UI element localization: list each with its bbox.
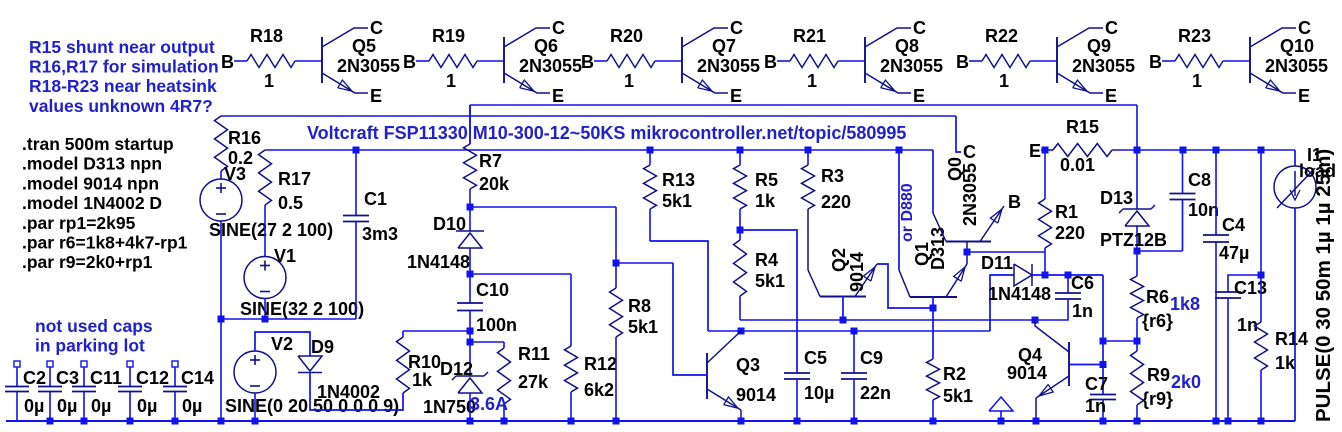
voltage source V1 xyxy=(240,246,364,319)
net flag B (Q8 base) xyxy=(764,52,777,72)
svg-text:C3: C3 xyxy=(56,368,79,388)
capacitor C1 xyxy=(343,150,398,319)
svg-text:2N3055: 2N3055 xyxy=(519,56,582,76)
svg-text:3m3: 3m3 xyxy=(362,224,398,244)
svg-text:Q10: Q10 xyxy=(1280,36,1314,56)
net flag C (Q9 collector) xyxy=(1105,18,1118,38)
svg-text:E: E xyxy=(1105,86,1117,106)
svg-text:Q8: Q8 xyxy=(895,36,919,56)
net flag E (Q9 emitter) xyxy=(1105,86,1117,106)
resistor R17 xyxy=(259,150,312,256)
svg-text:B: B xyxy=(221,52,234,72)
net flag E (Q10 emitter) xyxy=(1298,86,1310,106)
capacitor C5 10u xyxy=(784,348,834,421)
svg-text:R9: R9 xyxy=(1147,365,1170,385)
net flag E (shunt left) xyxy=(1029,141,1041,161)
junction Q4 base xyxy=(1100,361,1107,368)
capacitor C11 0u xyxy=(72,361,122,421)
svg-text:E: E xyxy=(730,86,742,106)
svg-text:1: 1 xyxy=(624,71,634,91)
junction C11 ground xyxy=(81,418,88,425)
transistor Q2 9014 xyxy=(808,248,933,320)
wire R21 to Q8 base xyxy=(838,60,865,62)
capacitor C7 1n xyxy=(1085,374,1116,421)
svg-text:C2: C2 xyxy=(23,368,46,388)
svg-text:C10: C10 xyxy=(476,280,509,300)
diode D13 PTZ12B zener xyxy=(1100,150,1167,251)
svg-text:1k: 1k xyxy=(1275,353,1296,373)
svg-text:220: 220 xyxy=(821,192,851,212)
svg-text:R18-R23 near heatsink: R18-R23 near heatsink xyxy=(29,76,217,96)
svg-text:C6: C6 xyxy=(1071,273,1094,293)
resistor R14 1k xyxy=(1255,150,1309,421)
wire R20 to Q7 base xyxy=(655,60,682,62)
svg-text:1: 1 xyxy=(999,71,1009,91)
junction R13 top xyxy=(647,147,654,154)
junction ground stem xyxy=(998,418,1005,425)
svg-text:C1: C1 xyxy=(364,189,387,209)
svg-text:1n: 1n xyxy=(1085,396,1106,416)
resistor R15 0.01 xyxy=(1053,117,1137,175)
svg-text:{r6}: {r6} xyxy=(1142,311,1173,331)
wire B to R20 xyxy=(594,60,607,62)
net flag B (Q0 emitter) xyxy=(1008,192,1021,212)
svg-text:R5: R5 xyxy=(755,170,778,190)
svg-text:.tran 500m startup: .tran 500m startup xyxy=(22,134,174,154)
svg-text:Q6: Q6 xyxy=(534,36,558,56)
svg-text:1k: 1k xyxy=(412,370,433,390)
wire output node xyxy=(1137,149,1295,151)
svg-text:B: B xyxy=(956,52,969,72)
wire D12 to ground xyxy=(469,393,471,421)
net flag B (Q5 base) xyxy=(221,52,234,72)
svg-text:27k: 27k xyxy=(518,372,549,392)
junction R11 ground xyxy=(501,418,508,425)
svg-text:.par r6=1k8+4k7-rp1: .par r6=1k8+4k7-rp1 xyxy=(22,233,188,253)
svg-text:D9: D9 xyxy=(311,337,334,357)
net flag B (Q6 base) xyxy=(403,52,416,72)
svg-text:2N3055: 2N3055 xyxy=(337,56,400,76)
wire rail supply (y=150) xyxy=(265,149,933,151)
svg-text:1: 1 xyxy=(1192,71,1202,91)
wire R22 to Q9 base xyxy=(1030,60,1057,62)
ground symbol xyxy=(989,397,1013,421)
value PULSE rotated xyxy=(1312,149,1335,422)
svg-text:10n: 10n xyxy=(1188,200,1219,220)
wire V2 top to D9 xyxy=(255,332,310,356)
junction Q1 base xyxy=(930,305,937,312)
resistor R18 xyxy=(247,26,295,91)
junction D11 C6 xyxy=(1065,272,1072,279)
svg-text:0.01: 0.01 xyxy=(1060,155,1095,175)
wire D9 cathode to R10 xyxy=(310,373,403,410)
svg-text:220: 220 xyxy=(1055,223,1085,243)
svg-text:or D880: or D880 xyxy=(899,183,916,242)
wire R19 to Q6 base xyxy=(477,60,504,62)
capacitor C6 1n xyxy=(1035,273,1094,321)
junction V1 bottom xyxy=(262,316,269,323)
svg-text:R10: R10 xyxy=(408,352,441,372)
junction Q0 base xyxy=(964,249,971,256)
resistor R21 xyxy=(790,26,838,91)
svg-text:20k: 20k xyxy=(479,174,510,194)
junction C7 ground xyxy=(1100,418,1107,425)
wire Q0 base to R1 xyxy=(967,251,1045,253)
net flag C (Q6 collector) xyxy=(552,18,565,38)
net flag C (Q8 collector) xyxy=(913,18,926,38)
wire rail output top (y=105) xyxy=(470,104,1137,106)
net flag B (Q10 base) xyxy=(1149,52,1162,72)
svg-text:9014: 9014 xyxy=(736,385,776,405)
resistor R13 5k1 xyxy=(644,150,696,241)
junction Q4 collector xyxy=(1032,317,1039,324)
junction C8 top xyxy=(1180,147,1187,154)
svg-text:5k1: 5k1 xyxy=(943,386,973,406)
junction Q1 collector rail xyxy=(896,147,903,154)
svg-text:.par r9=2k0+rp1: .par r9=2k0+rp1 xyxy=(22,252,153,272)
wire B to R23 xyxy=(1162,60,1175,62)
svg-text:C: C xyxy=(730,18,743,38)
svg-text:5k1: 5k1 xyxy=(755,271,785,291)
svg-text:C8: C8 xyxy=(1188,170,1211,190)
svg-text:0µ: 0µ xyxy=(182,396,202,416)
resistor R8 5k1 xyxy=(610,207,659,421)
svg-text:SINE(32 2 100): SINE(32 2 100) xyxy=(240,299,364,319)
svg-text:9014: 9014 xyxy=(1007,363,1047,383)
junction C14 ground xyxy=(172,418,179,425)
wire V1 bottom xyxy=(264,299,266,320)
svg-text:0µ: 0µ xyxy=(137,396,157,416)
svg-text:V3: V3 xyxy=(224,164,246,184)
net flag E (Q6 emitter) xyxy=(552,86,564,106)
svg-text:R16: R16 xyxy=(228,128,261,148)
svg-text:C11: C11 xyxy=(90,368,122,388)
resistor R19 xyxy=(429,26,477,91)
svg-text:R2: R2 xyxy=(943,364,966,384)
junction R5 R4 xyxy=(737,227,744,234)
junction R8 mid xyxy=(613,260,620,267)
wire output top right corner xyxy=(1136,105,1138,150)
resistor R6 1k8 xyxy=(1131,251,1201,341)
svg-text:B: B xyxy=(403,52,416,72)
svg-text:C9: C9 xyxy=(860,348,883,368)
svg-text:R15: R15 xyxy=(1066,117,1099,137)
wire R7 to R8 xyxy=(470,206,616,208)
wire D10 to R12 xyxy=(470,273,571,275)
net flag C (Q10 collector) xyxy=(1298,18,1311,38)
comment parking lot xyxy=(35,316,153,356)
svg-text:R20: R20 xyxy=(610,26,643,46)
svg-text:R3: R3 xyxy=(821,166,844,186)
svg-text:not used caps: not used caps xyxy=(35,316,153,336)
svg-text:R19: R19 xyxy=(432,26,465,46)
junction R7 bottom xyxy=(467,204,474,211)
diode D10 1N4148 xyxy=(407,207,484,272)
diode D9 1N4002 xyxy=(298,337,380,402)
junction Q2 base xyxy=(840,317,847,324)
transistor Q0 2N3055 xyxy=(933,157,1004,252)
junction V3 ground xyxy=(218,418,225,425)
svg-text:.model D313 npn: .model D313 npn xyxy=(22,154,162,174)
wire base net (y=331) xyxy=(708,330,990,332)
svg-text:C: C xyxy=(1298,18,1311,38)
svg-text:Q7: Q7 xyxy=(712,36,736,56)
net flag E (Q5 emitter) xyxy=(370,86,382,106)
transistor Q6 2N3055 xyxy=(504,28,582,93)
svg-text:PTZ12B: PTZ12B xyxy=(1100,230,1167,250)
resistor R5 1k xyxy=(734,150,779,230)
junction R14 ground xyxy=(1258,418,1265,425)
net flag E (Q7 emitter) xyxy=(730,86,742,106)
svg-text:R18: R18 xyxy=(250,26,283,46)
junction C13 ground xyxy=(1225,418,1232,425)
svg-text:.model 1N4002 D: .model 1N4002 D xyxy=(22,193,162,213)
svg-text:1N4148: 1N4148 xyxy=(988,284,1051,304)
net flag E (Q8 emitter) xyxy=(913,86,925,106)
wire B to R21 xyxy=(777,60,790,62)
svg-text:C4: C4 xyxy=(1222,215,1245,235)
resistor R2 5k1 xyxy=(927,359,974,421)
wire rail net C (y=116) xyxy=(221,115,956,117)
junction R8 ground xyxy=(613,418,620,425)
net flag C (Q5 collector) xyxy=(370,18,383,38)
svg-text:2N3055: 2N3055 xyxy=(960,163,980,226)
svg-text:R11: R11 xyxy=(518,344,550,364)
junction C9 top xyxy=(851,328,858,335)
transistor Q5 2N3055 xyxy=(322,28,400,93)
svg-text:E: E xyxy=(370,86,382,106)
svg-text:E: E xyxy=(1029,141,1041,161)
svg-text:B: B xyxy=(1008,192,1021,212)
resistor R7 xyxy=(464,105,511,207)
svg-text:SINE(27 2 100): SINE(27 2 100) xyxy=(209,220,333,240)
svg-text:5k1: 5k1 xyxy=(628,317,658,337)
capacitor C13 1n xyxy=(1215,275,1267,421)
wire R18 to Q5 base xyxy=(295,60,322,62)
capacitor C2 0u xyxy=(5,361,46,421)
svg-text:2N3055: 2N3055 xyxy=(697,56,760,76)
svg-text:R1: R1 xyxy=(1055,202,1078,222)
wire V3 to ground xyxy=(220,221,222,421)
wire ground rail xyxy=(6,420,1295,422)
transistor Q9 2N3055 xyxy=(1057,28,1135,93)
svg-text:100n: 100n xyxy=(476,315,517,335)
voltage source V2 xyxy=(225,334,399,416)
wire gnd return y319 xyxy=(221,318,356,320)
title text xyxy=(307,123,906,143)
svg-text:V1: V1 xyxy=(274,246,296,266)
wire R23 to Q10 base xyxy=(1223,60,1250,62)
transistor Q8 2N3055 xyxy=(865,28,943,93)
comment or D880 xyxy=(899,183,916,242)
junction R5 top xyxy=(737,147,744,154)
capacitor C9 22n xyxy=(841,331,891,421)
svg-text:1N4002: 1N4002 xyxy=(317,382,380,402)
svg-text:D12: D12 xyxy=(440,359,473,379)
svg-text:in parking lot: in parking lot xyxy=(35,336,145,356)
svg-text:D10: D10 xyxy=(433,214,466,234)
svg-text:R7: R7 xyxy=(479,151,502,171)
svg-text:3.6A: 3.6A xyxy=(470,394,508,414)
resistor R23 xyxy=(1175,26,1223,91)
junction R3 top xyxy=(805,147,812,154)
junction R2 ground xyxy=(930,418,937,425)
junction V2 ground xyxy=(252,418,259,425)
svg-text:C: C xyxy=(913,18,926,38)
svg-text:0µ: 0µ xyxy=(91,396,111,416)
junction C5 ground xyxy=(794,418,801,425)
capacitor C14 0u xyxy=(163,361,214,421)
svg-text:0µ: 0µ xyxy=(57,396,77,416)
net flag B (Q9 base) xyxy=(956,52,969,72)
svg-text:E: E xyxy=(1298,86,1310,106)
svg-text:B: B xyxy=(1149,52,1162,72)
svg-text:Q9: Q9 xyxy=(1087,36,1111,56)
svg-text:R14: R14 xyxy=(1275,329,1308,349)
wire C10 to R10 xyxy=(403,330,470,332)
resistor R20 xyxy=(607,26,655,91)
junction R5 net y320 crossing xyxy=(0,0,1,1)
resistor R12 6k2 xyxy=(565,274,618,421)
net flag C (Q7 collector) xyxy=(730,18,743,38)
junction R12 ground xyxy=(568,418,575,425)
capacitor C10 100n xyxy=(457,249,517,343)
svg-text:B: B xyxy=(581,52,594,72)
svg-text:2k0: 2k0 xyxy=(1171,372,1201,392)
svg-text:R23: R23 xyxy=(1178,26,1211,46)
wire D13 to C8 xyxy=(1137,200,1183,252)
junction C12 ground xyxy=(127,418,134,425)
junction D10 bottom xyxy=(467,271,474,278)
resistor R11 27k xyxy=(498,342,551,421)
comment text blue xyxy=(29,37,219,116)
current source I1 load xyxy=(1274,145,1336,421)
junction Q4 emitter ground xyxy=(1033,418,1040,425)
svg-text:R13: R13 xyxy=(662,170,695,190)
wire C1 bottom corner xyxy=(355,318,357,320)
svg-text:R8: R8 xyxy=(628,296,651,316)
wire B to R18 xyxy=(234,60,247,62)
junction C9 ground xyxy=(851,418,858,425)
svg-text:0.5: 0.5 xyxy=(278,193,303,213)
svg-text:R12: R12 xyxy=(584,354,617,374)
wire B to R22 xyxy=(969,60,982,62)
svg-text:1N750: 1N750 xyxy=(423,397,476,417)
svg-text:R4: R4 xyxy=(755,250,778,270)
resistor R10 1k xyxy=(397,331,442,393)
svg-text:D11: D11 xyxy=(981,253,1013,273)
svg-text:R21: R21 xyxy=(793,26,826,46)
capacitor C12 0u xyxy=(118,361,169,421)
junction C4 ground xyxy=(1213,418,1220,425)
wire V2 bottom xyxy=(254,393,256,421)
wire C10 to R11 xyxy=(470,341,504,343)
svg-text:D313: D313 xyxy=(928,227,948,270)
svg-text:2N3055: 2N3055 xyxy=(880,56,943,76)
capacitor C4 47u xyxy=(1203,150,1249,421)
resistor R3 220 xyxy=(802,150,852,270)
wire R5R4 to C5 xyxy=(740,230,797,373)
svg-text:9014: 9014 xyxy=(847,252,867,292)
svg-text:0µ: 0µ xyxy=(24,396,44,416)
junction R14 top xyxy=(1258,147,1265,154)
svg-text:47µ: 47µ xyxy=(1219,243,1249,263)
net flag B (Q7 base) xyxy=(581,52,594,72)
voltage source V3 xyxy=(200,164,333,240)
junction V3 col y319 xyxy=(218,316,225,323)
svg-text:Q2: Q2 xyxy=(829,248,849,272)
wire E stub xyxy=(1041,149,1053,151)
junction C7 top net xyxy=(1100,338,1107,345)
svg-text:C13: C13 xyxy=(1234,278,1267,298)
svg-text:C12: C12 xyxy=(136,368,169,388)
svg-text:R16,R17 for simulation: R16,R17 for simulation xyxy=(29,57,219,77)
svg-text:2N3055: 2N3055 xyxy=(1072,56,1135,76)
svg-text:C: C xyxy=(1105,18,1118,38)
svg-text:E: E xyxy=(552,86,564,106)
svg-text:Q4: Q4 xyxy=(1018,345,1042,365)
diode D12 1N750 zener xyxy=(423,342,508,417)
junction R6 R9 xyxy=(1134,338,1141,345)
wire output top left corner xyxy=(469,105,471,144)
svg-text:1: 1 xyxy=(264,71,274,91)
svg-text:Q5: Q5 xyxy=(352,36,376,56)
junction C1 top xyxy=(353,147,360,154)
wire R13 to Q1 base net xyxy=(650,241,708,331)
junction C4 top xyxy=(1213,147,1220,154)
diode D11 1N4148 xyxy=(981,253,1103,331)
junction R15 right xyxy=(1134,147,1141,154)
junction C10 bottom 1 xyxy=(467,328,474,335)
junction C3 ground xyxy=(47,418,54,425)
wire Q1 base to R2 xyxy=(932,297,934,359)
svg-text:C7: C7 xyxy=(1085,374,1108,394)
capacitor C8 10n xyxy=(1170,150,1220,220)
svg-text:2N3055: 2N3055 xyxy=(1265,56,1328,76)
junction C10 bottom 2 xyxy=(467,339,474,346)
resistor R16 xyxy=(215,116,262,179)
svg-text:1: 1 xyxy=(807,71,817,91)
transistor Q10 2N3055 xyxy=(1250,28,1328,93)
svg-text:R6: R6 xyxy=(1146,287,1169,307)
svg-text:Q3: Q3 xyxy=(736,355,760,375)
wire rail to Q0 collector xyxy=(932,150,934,213)
svg-text:1k: 1k xyxy=(755,191,776,211)
svg-text:E: E xyxy=(913,86,925,106)
resistor R22 xyxy=(982,26,1030,91)
svg-text:values unknown 4R7?: values unknown 4R7? xyxy=(29,96,213,116)
net flag C right end xyxy=(956,116,976,162)
svg-text:1k8: 1k8 xyxy=(1170,294,1200,314)
junction D13 bottom xyxy=(1134,248,1141,255)
svg-text:D13: D13 xyxy=(1100,188,1133,208)
svg-text:R15 shunt near output: R15 shunt near output xyxy=(29,37,215,57)
wire to R6 R9 node xyxy=(1103,340,1137,342)
svg-text:C5: C5 xyxy=(804,348,827,368)
transistor Q7 2N3055 xyxy=(682,28,760,93)
resistor R1 220 xyxy=(1039,150,1086,275)
junction R14 C13 xyxy=(1258,272,1265,279)
svg-text:R17: R17 xyxy=(278,169,311,189)
svg-text:.par rp1=2k95: .par rp1=2k95 xyxy=(22,213,136,233)
wire B to R19 xyxy=(416,60,429,62)
svg-text:C: C xyxy=(370,18,383,38)
svg-text:22n: 22n xyxy=(860,383,891,403)
svg-text:1n: 1n xyxy=(1072,301,1093,321)
svg-text:5k1: 5k1 xyxy=(662,191,692,211)
capacitor C3 0u xyxy=(38,361,79,421)
svg-text:C: C xyxy=(552,18,565,38)
